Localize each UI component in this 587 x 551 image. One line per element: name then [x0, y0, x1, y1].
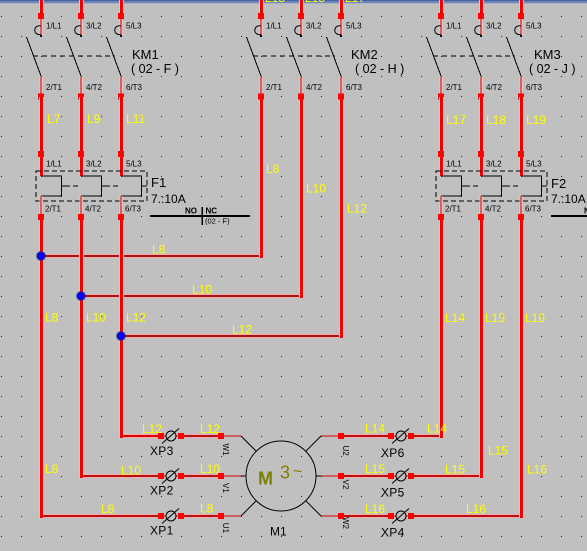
wire junction L12 to XP3	[123, 422, 162, 438]
contactor KM1 pole 2 (3/L2-4/T2)	[67, 0, 103, 100]
thermal overload relay F1 outline (dashed)	[36, 171, 147, 201]
contactor KM2 pole 1 (1/L1-2/T1)	[247, 0, 283, 100]
svg-text:( 02 - H ): ( 02 - H )	[355, 62, 404, 76]
svg-text:L13: L13	[265, 0, 285, 5]
svg-text:L12: L12	[347, 202, 367, 216]
F2 label and rating	[551, 176, 586, 206]
motor M1 body	[246, 441, 316, 539]
svg-text:L14: L14	[445, 311, 465, 325]
svg-text:L15: L15	[445, 463, 465, 477]
svg-text:7.:10A: 7.:10A	[551, 192, 586, 206]
svg-text:L12: L12	[232, 323, 252, 337]
svg-text:1/L1: 1/L1	[446, 22, 462, 31]
svg-text:W2: W2	[341, 517, 350, 530]
F1 heater element pole 2 (3/L2-4/T2)	[81, 160, 105, 214]
svg-text:2/T1: 2/T1	[45, 205, 62, 214]
svg-text:KM2: KM2	[351, 47, 378, 62]
contactor KM1 pole 3 (5/L3-6/T3)	[107, 0, 143, 100]
svg-text:3/L2: 3/L2	[86, 22, 102, 31]
svg-text:F1: F1	[151, 175, 166, 190]
svg-text:M1: M1	[270, 525, 287, 539]
KM3 label	[529, 47, 576, 76]
F2 heater element pole 1 (1/L1-2/T1)	[441, 160, 465, 214]
F1 internal mechanical link (dashed)	[65, 185, 147, 187]
svg-text:L19: L19	[526, 113, 546, 127]
wire F1 out 4/T2 down, net L10	[78, 196, 106, 478]
svg-text:L10: L10	[200, 462, 220, 476]
svg-text:2/T1: 2/T1	[46, 83, 63, 92]
connector XP3	[150, 429, 184, 459]
wire motor V2 to XP5, net L15	[338, 462, 391, 479]
F2 heater element pole 3 (5/L3-6/T3)	[521, 160, 545, 214]
svg-text:2/T1: 2/T1	[266, 83, 283, 92]
F1 heater element pole 3 (5/L3-6/T3)	[121, 160, 145, 214]
svg-text:3/L2: 3/L2	[486, 160, 502, 169]
svg-text:L15: L15	[365, 462, 385, 476]
svg-text:L16: L16	[466, 502, 486, 516]
svg-text:2/T1: 2/T1	[445, 205, 462, 214]
svg-text:L8: L8	[200, 502, 214, 516]
svg-text:3/L2: 3/L2	[486, 22, 502, 31]
svg-text:U1: U1	[221, 523, 230, 534]
F2 NO/NC cross-reference table (clipped)	[551, 207, 587, 217]
svg-text:XP6: XP6	[381, 446, 405, 460]
contactor KM3 pole 3 (5/L3-6/T3)	[507, 0, 543, 100]
wire KM2 6/T3 to junction, net L12	[123, 94, 367, 339]
contactor KM2 pole 3 (5/L3-6/T3)	[327, 0, 363, 100]
wire F1 out 6/T3 down, net L12	[118, 196, 146, 438]
KM2 label	[351, 47, 404, 76]
svg-text:KM1: KM1	[132, 47, 159, 62]
svg-text:L8: L8	[101, 502, 115, 516]
F1 heater element pole 1 (1/L1-2/T1)	[41, 160, 65, 214]
KM1 mechanical link (dashed)	[33, 55, 115, 57]
wire KM2 4/T2 to junction, net L10	[83, 94, 326, 299]
motor pin W2	[306, 501, 350, 530]
svg-text:1/L1: 1/L1	[46, 22, 62, 31]
junction node L12	[117, 332, 125, 340]
wire motor W2 to XP4, net L16	[338, 502, 391, 519]
F2 heater element pole 2 (3/L2-4/T2)	[481, 160, 505, 214]
svg-text:6/T3: 6/T3	[346, 83, 363, 92]
svg-text:1/L1: 1/L1	[46, 160, 62, 169]
svg-text:6/T3: 6/T3	[526, 83, 543, 92]
svg-text:L10: L10	[86, 311, 106, 325]
connector XP6	[381, 429, 414, 461]
svg-text:3/L2: 3/L2	[86, 160, 102, 169]
svg-text:F2: F2	[551, 176, 566, 191]
svg-text:L17: L17	[446, 113, 466, 127]
svg-text:(02 - F): (02 - F)	[205, 217, 230, 226]
svg-text:NO: NO	[185, 207, 197, 216]
svg-text:L15: L15	[488, 444, 508, 458]
wire KM1 2/T1 to F1, net L7	[38, 97, 61, 176]
svg-text:L17: L17	[345, 0, 365, 5]
wire KM1 6/T3 to F1, net L11	[118, 97, 145, 176]
svg-text:5/L3: 5/L3	[126, 160, 142, 169]
svg-text:L8: L8	[45, 462, 59, 476]
wire F1 out 2/T1 down, net L8	[38, 196, 59, 518]
F1 label and rating	[151, 175, 186, 206]
wire XP3 to motor W1, net L12	[181, 422, 224, 439]
wire junction L8 to XP1	[43, 502, 161, 518]
wire KM3 4/T2 to F2, net L18	[478, 97, 506, 176]
wire F2 out 4/T2 down to XP5, net L15	[411, 196, 508, 478]
junction node L10	[77, 292, 85, 300]
wire XP2 to motor V1, net L10	[181, 462, 224, 479]
wire motor U2 to XP6, net L14	[338, 422, 391, 440]
F2 internal mechanical link (dashed)	[465, 185, 547, 187]
svg-text:L12: L12	[126, 311, 146, 325]
svg-text:M: M	[258, 469, 273, 489]
svg-text:L18: L18	[486, 113, 506, 127]
wire KM1 4/T2 to F1, net L9	[78, 97, 101, 176]
svg-text:3/L2: 3/L2	[306, 22, 322, 31]
svg-text:( 02 - F ): ( 02 - F )	[131, 62, 179, 76]
svg-text:L8: L8	[45, 311, 59, 325]
contactor KM3 pole 2 (3/L2-4/T2)	[467, 0, 503, 100]
svg-text:7.:10A: 7.:10A	[151, 192, 186, 206]
svg-text:L16: L16	[525, 311, 545, 325]
svg-text:L10: L10	[306, 182, 326, 196]
connector XP1	[150, 509, 184, 538]
svg-text:4/T2: 4/T2	[86, 83, 103, 92]
svg-text:XP5: XP5	[381, 486, 405, 500]
motor pin U1	[221, 501, 256, 534]
contactor KM2 pole 2 (3/L2-4/T2)	[287, 0, 323, 100]
svg-text:NC: NC	[206, 207, 218, 216]
svg-text:L9: L9	[87, 112, 101, 126]
svg-text:V2: V2	[341, 480, 350, 490]
motor pin V1	[221, 476, 246, 493]
svg-text:U2: U2	[341, 446, 350, 457]
svg-text:4/T2: 4/T2	[485, 205, 502, 214]
wire KM3 6/T3 to F2, net L19	[518, 97, 546, 176]
wire KM3 2/T1 to F2, net L17	[438, 97, 466, 176]
svg-text:( 02 - J ): ( 02 - J )	[529, 62, 576, 76]
contactor KM1 pole 1 (1/L1-2/T1)	[27, 0, 63, 100]
svg-text:L14: L14	[365, 422, 385, 436]
connector XP4	[381, 509, 414, 540]
svg-text:5/L3: 5/L3	[526, 160, 542, 169]
wire XP1 to motor U1, net L8	[181, 502, 224, 520]
svg-text:KM3: KM3	[534, 47, 561, 62]
contactor KM3 pole 1 (1/L1-2/T1)	[427, 0, 463, 100]
svg-text:1/L1: 1/L1	[266, 22, 282, 31]
svg-text:XP2: XP2	[150, 484, 174, 498]
thermal overload relay F2 outline (dashed)	[436, 171, 547, 201]
svg-text:XP4: XP4	[381, 526, 405, 540]
wire junction L10 to XP2	[83, 464, 161, 479]
clipped wire labels above KM2	[265, 0, 365, 5]
svg-text:3: 3	[280, 463, 290, 483]
svg-text:4/T2: 4/T2	[486, 83, 503, 92]
wire KM2 2/T1 to junction, net L8	[43, 94, 280, 259]
svg-text:L16: L16	[527, 463, 547, 477]
svg-text:XP1: XP1	[150, 524, 174, 538]
svg-text:L8: L8	[152, 243, 166, 257]
svg-text:6/T3: 6/T3	[126, 83, 143, 92]
svg-text:2/T1: 2/T1	[446, 83, 463, 92]
svg-text:4/T2: 4/T2	[306, 83, 323, 92]
svg-text:L11: L11	[126, 112, 145, 126]
svg-text:L15: L15	[305, 0, 325, 5]
motor pin W1	[221, 436, 256, 456]
svg-text:L12: L12	[200, 422, 220, 436]
KM2 mechanical link (dashed)	[253, 55, 335, 57]
motor pin V2	[316, 476, 350, 490]
KM3 mechanical link (dashed)	[433, 55, 515, 57]
svg-text:L10: L10	[121, 464, 141, 478]
svg-text:5/L3: 5/L3	[126, 22, 142, 31]
svg-text:4/T2: 4/T2	[85, 205, 102, 214]
svg-text:6/T3: 6/T3	[525, 205, 542, 214]
junction node L8	[37, 252, 45, 260]
svg-text:1/L1: 1/L1	[446, 160, 462, 169]
connector XP5	[381, 469, 414, 500]
svg-text:V1: V1	[221, 483, 230, 493]
svg-text:~: ~	[293, 464, 302, 481]
svg-text:5/L3: 5/L3	[526, 22, 542, 31]
KM1 label	[131, 47, 179, 76]
svg-text:L8: L8	[266, 162, 280, 176]
motor pin U2	[306, 436, 350, 456]
svg-text:5/L3: 5/L3	[346, 22, 362, 31]
wire F2 out 2/T1 down to XP6, net L14	[411, 196, 465, 438]
connector XP2	[150, 469, 184, 498]
F1 NO/NC cross-reference table	[150, 207, 250, 226]
svg-text:W1: W1	[221, 444, 230, 457]
svg-text:6/T3: 6/T3	[125, 205, 142, 214]
svg-text:L14: L14	[427, 422, 447, 436]
svg-text:L7: L7	[47, 112, 61, 126]
svg-text:L10: L10	[192, 283, 212, 297]
wire F2 out 6/T3 down to XP4, net L16	[411, 196, 547, 518]
svg-text:XP3: XP3	[150, 444, 174, 458]
svg-text:L15: L15	[485, 311, 505, 325]
svg-text:L16: L16	[365, 502, 385, 516]
